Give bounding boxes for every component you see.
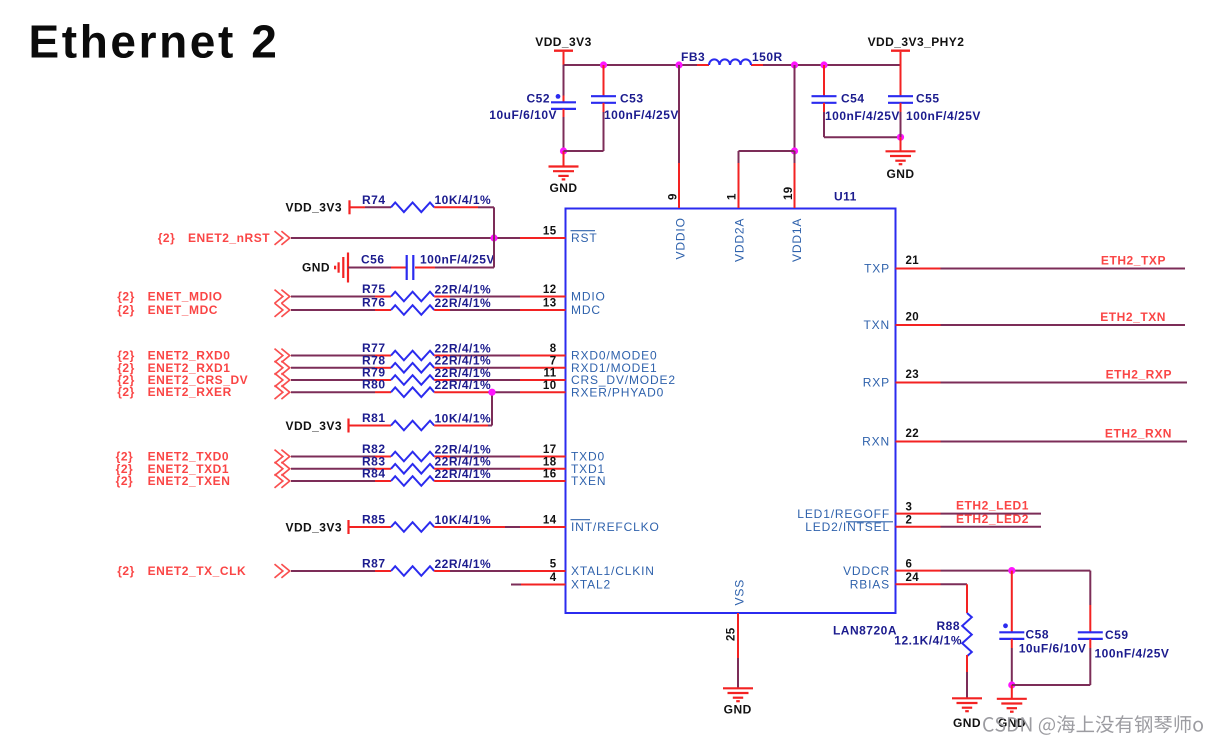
svg-text:22R/4/1%: 22R/4/1%	[435, 296, 492, 310]
wire R83 to pin 18	[434, 468, 520, 470]
wire net ETH2_TXN	[941, 310, 1186, 325]
svg-text:C55: C55	[916, 92, 940, 106]
svg-text:9: 9	[668, 193, 680, 200]
svg-text:GND: GND	[549, 181, 577, 195]
svg-text:7: 7	[550, 356, 557, 368]
svg-text:VSS: VSS	[733, 579, 747, 606]
power VDD_3V3 (R85 pull-up)	[285, 520, 348, 534]
port ENET2_TXD1	[116, 462, 290, 476]
wire RBIAS to R88	[941, 584, 968, 613]
resistor R87	[362, 557, 491, 576]
wire R87 to pin 5	[434, 570, 520, 572]
capacitor C55	[888, 92, 981, 138]
svg-text:LAN8720A: LAN8720A	[833, 624, 897, 638]
node junction C58 top	[1008, 567, 1015, 574]
wire R88 to GND	[966, 655, 968, 698]
svg-text:C52: C52	[526, 92, 550, 106]
svg-text:R80: R80	[362, 378, 386, 392]
node junction nRST net	[490, 234, 497, 241]
svg-text:RST: RST	[571, 231, 598, 245]
pin 8	[520, 343, 566, 355]
port ENET2_nRST	[158, 231, 290, 245]
pin 6	[896, 558, 941, 570]
power VDD_3V3 (R81 pull-up)	[285, 419, 348, 433]
svg-text:XTAL2: XTAL2	[571, 578, 611, 592]
ground GND (C56)	[302, 253, 348, 283]
svg-text:VDD_3V3: VDD_3V3	[285, 200, 342, 214]
svg-text:VDD2A: VDD2A	[733, 218, 747, 262]
capacitor C52	[489, 65, 576, 151]
resistor R84	[362, 467, 491, 486]
svg-text:25: 25	[726, 627, 738, 641]
wire R84 to pin 16	[434, 480, 520, 482]
svg-text:10K/4/1%: 10K/4/1%	[435, 193, 492, 207]
svg-text:LED1/REGOFF: LED1/REGOFF	[797, 507, 890, 521]
port ENET_MDC	[117, 303, 290, 317]
svg-text:ENET2_TXEN: ENET2_TXEN	[148, 474, 231, 488]
pin 23	[896, 369, 941, 382]
svg-text:10uF/6/10V: 10uF/6/10V	[489, 108, 557, 122]
svg-text:10uF/6/10V: 10uF/6/10V	[1019, 641, 1087, 655]
wire ENET2_TXD0 to R82	[291, 456, 391, 458]
ground GND (below VSS)	[723, 688, 753, 716]
resistor R74	[351, 193, 492, 212]
pin 12	[520, 284, 566, 296]
pin 7	[520, 356, 566, 368]
wire R76 to pin 13	[434, 309, 520, 311]
svg-text:R75: R75	[362, 282, 386, 296]
svg-text:24: 24	[906, 572, 920, 584]
svg-text:100nF/4/25V: 100nF/4/25V	[1095, 646, 1170, 660]
port ENET2_TX_CLK	[117, 564, 290, 578]
svg-text:13: 13	[543, 298, 557, 310]
wire ENET2_RXER to R80	[291, 391, 391, 393]
svg-text:ENET_MDC: ENET_MDC	[148, 303, 218, 317]
svg-text:{2}: {2}	[117, 564, 135, 578]
node junction C58 bottom	[1008, 681, 1015, 688]
svg-text:C59: C59	[1105, 628, 1129, 642]
resistor R82	[362, 442, 491, 461]
svg-text:14: 14	[543, 515, 557, 527]
node junction on rail at C53	[600, 61, 607, 68]
node junction on rail at pin9 branch	[675, 61, 682, 68]
pin 19 VDD1A	[783, 151, 804, 262]
svg-text:ETH2_RXP: ETH2_RXP	[1106, 368, 1172, 382]
pin 4	[511, 572, 566, 584]
resistor R80	[362, 378, 491, 397]
svg-text:U11: U11	[834, 190, 857, 204]
wire C54 bottom to C55 bottom	[824, 136, 901, 138]
svg-text:{2}: {2}	[116, 474, 134, 488]
resistor R75	[362, 282, 491, 301]
wire C56 to nRST net	[415, 238, 494, 268]
svg-text:22R/4/1%: 22R/4/1%	[435, 557, 492, 571]
svg-text:TXP: TXP	[864, 262, 890, 276]
svg-text:ETH2_TXP: ETH2_TXP	[1101, 254, 1166, 268]
svg-text:10K/4/1%: 10K/4/1%	[435, 513, 492, 527]
wire ENET2_nRST to pin 15	[291, 237, 520, 239]
pin 5	[520, 559, 566, 571]
svg-text:R76: R76	[362, 296, 386, 310]
svg-text:{2}: {2}	[158, 231, 176, 245]
node junction on rail at C54	[820, 61, 827, 68]
svg-text:16: 16	[543, 469, 557, 481]
svg-text:VDD_3V3: VDD_3V3	[285, 419, 342, 433]
svg-text:100nF/4/25V: 100nF/4/25V	[604, 108, 679, 122]
svg-text:12.1K/4/1%: 12.1K/4/1%	[894, 633, 962, 647]
svg-text:MDIO: MDIO	[571, 290, 606, 304]
svg-text:ETH2_LED1: ETH2_LED1	[956, 499, 1029, 513]
node junction C55 bottom	[897, 134, 904, 141]
wire R75 to pin 12	[434, 296, 520, 298]
ground GND (below C55)	[886, 137, 916, 181]
svg-text:3: 3	[906, 501, 913, 513]
svg-text:23: 23	[906, 369, 920, 381]
svg-text:22R/4/1%: 22R/4/1%	[435, 282, 492, 296]
wire ENET_MDIO to R75	[291, 296, 391, 298]
ground GND (below C58)	[997, 685, 1027, 730]
wire R82 to pin 17	[434, 456, 520, 458]
pin 10	[520, 380, 566, 392]
wire R78 to pin 7	[434, 367, 520, 369]
resistor R85	[350, 513, 492, 532]
port ENET2_RXD0	[117, 349, 290, 363]
power VDD_3V3 (R74 pull-up)	[285, 200, 349, 214]
svg-text:100nF/4/25V: 100nF/4/25V	[825, 109, 900, 123]
svg-text:R85: R85	[362, 513, 386, 527]
capacitor C58	[999, 571, 1086, 685]
svg-text:ETH2_RXN: ETH2_RXN	[1105, 427, 1172, 441]
U11 left pin names	[571, 231, 676, 592]
pin 3	[896, 501, 941, 513]
pin 24	[896, 572, 941, 584]
svg-text:ENET2_RXER: ENET2_RXER	[148, 385, 232, 399]
resistor R79	[362, 366, 491, 385]
pin 16	[520, 469, 566, 481]
wire ENET2_RXD1 to R78	[291, 367, 391, 369]
pin 11	[520, 368, 566, 380]
svg-text:C54: C54	[841, 92, 865, 106]
wire net ETH2_RXN	[941, 427, 1188, 442]
svg-text:GND: GND	[886, 167, 914, 181]
svg-text:RBIAS: RBIAS	[850, 578, 890, 592]
wire R81 to RXER net	[434, 392, 492, 425]
wire ENET2_TXD1 to R83	[291, 468, 391, 470]
ground GND (below R88)	[952, 698, 982, 730]
pin 21	[896, 255, 941, 268]
svg-text:ETH2_TXN: ETH2_TXN	[1100, 310, 1166, 324]
svg-text:C53: C53	[620, 92, 644, 106]
port ENET2_TXD0	[116, 450, 290, 464]
svg-text:VDD1A: VDD1A	[790, 218, 804, 262]
pin 14	[520, 515, 566, 527]
node junction on rail at pin19 branch	[791, 61, 798, 68]
pin 13	[520, 298, 566, 310]
wire R77 to pin 8	[434, 355, 520, 357]
svg-text:MDC: MDC	[571, 303, 601, 317]
svg-text:GND: GND	[724, 703, 752, 717]
svg-text:R81: R81	[362, 411, 386, 425]
capacitor C54	[812, 65, 900, 137]
power VDD_3V3_PHY2	[868, 35, 965, 96]
resistor R77	[362, 341, 491, 360]
resistor R83	[362, 454, 491, 473]
wire ENET2_CRS_DV to R79	[291, 379, 391, 381]
capacitor C56	[348, 253, 495, 281]
svg-text:10: 10	[543, 380, 557, 392]
wire C59 bottom to C58 bottom	[1012, 684, 1091, 686]
pin 25 VSS	[726, 579, 747, 688]
node junction RXER net	[488, 389, 495, 396]
svg-text:XTAL1/CLKIN: XTAL1/CLKIN	[571, 564, 655, 578]
svg-text:TXN: TXN	[863, 318, 890, 332]
svg-text:10K/4/1%: 10K/4/1%	[435, 411, 492, 425]
svg-text:100nF/4/25V: 100nF/4/25V	[420, 253, 495, 267]
svg-text:VDDIO: VDDIO	[674, 217, 688, 259]
wire R80 to pin 10	[434, 391, 520, 393]
svg-text:GND: GND	[302, 261, 330, 275]
svg-text:{2}: {2}	[117, 385, 135, 399]
wire VDDCR net	[941, 570, 1091, 572]
svg-text:19: 19	[783, 186, 795, 200]
svg-text:TXEN: TXEN	[571, 474, 606, 488]
op-amp U11 LAN8720A IC body	[566, 190, 898, 638]
pin 20	[896, 312, 941, 325]
svg-text:VDD_3V3_PHY2: VDD_3V3_PHY2	[868, 35, 965, 49]
svg-text:VDD_3V3: VDD_3V3	[535, 35, 592, 49]
svg-text:22R/4/1%: 22R/4/1%	[435, 467, 492, 481]
svg-text:22: 22	[906, 428, 920, 440]
pin 1 VDD2A	[727, 65, 799, 262]
svg-text:FB3: FB3	[681, 50, 705, 64]
svg-text:C58: C58	[1026, 628, 1050, 642]
svg-text:21: 21	[906, 255, 920, 267]
svg-text:ETH2_LED2: ETH2_LED2	[956, 512, 1029, 526]
port ENET2_TXEN	[116, 474, 290, 488]
wire net ETH2_RXP	[941, 368, 1188, 383]
svg-text:ENET2_TX_CLK: ENET2_TX_CLK	[148, 564, 247, 578]
svg-text:5: 5	[550, 559, 557, 571]
svg-text:1: 1	[727, 193, 739, 200]
watermark	[983, 715, 1203, 735]
node junction C52/C53 bottom	[560, 147, 567, 154]
svg-text:Ethernet 2: Ethernet 2	[29, 16, 280, 68]
wire ENET2_TXEN to R84	[291, 480, 391, 482]
wire main 3V3 rail	[564, 64, 901, 66]
wire ENET_MDC to R76	[291, 309, 391, 311]
resistor R78	[362, 353, 491, 372]
pin 17	[520, 444, 566, 456]
svg-text:ENET2_nRST: ENET2_nRST	[188, 231, 270, 245]
wire R85 to pin 14	[434, 526, 520, 528]
pin 2	[896, 515, 941, 527]
svg-text:18: 18	[543, 457, 557, 469]
svg-text:RXN: RXN	[862, 435, 890, 449]
svg-text:15: 15	[543, 226, 557, 238]
svg-text:8: 8	[550, 343, 557, 355]
power VDD_3V3 (top)	[535, 35, 592, 65]
wire R74 to nRST net	[434, 207, 494, 238]
port ENET2_RXD1	[117, 361, 290, 375]
svg-text:17: 17	[543, 444, 557, 456]
pin 22	[896, 428, 941, 441]
resistor R81	[350, 411, 492, 430]
wire net ETH2_TXP	[941, 254, 1186, 269]
svg-text:150R: 150R	[752, 50, 783, 64]
pin 15	[520, 226, 566, 238]
wire ENET2_TX_CLK to R87	[291, 570, 391, 572]
resistor R76	[362, 296, 491, 315]
wire R79 to pin 11	[434, 379, 520, 381]
wire net ETH2_LED1	[941, 499, 1042, 514]
svg-text:{2}: {2}	[117, 290, 135, 304]
port ENET2_RXER	[117, 385, 290, 399]
capacitor C53	[591, 65, 679, 151]
svg-text:ENET_MDIO: ENET_MDIO	[148, 290, 223, 304]
svg-text:RXP: RXP	[863, 376, 890, 390]
svg-text:22R/4/1%: 22R/4/1%	[435, 378, 492, 392]
capacitor C59	[1078, 571, 1170, 685]
svg-text:GND: GND	[953, 716, 981, 730]
svg-text:20: 20	[906, 312, 920, 324]
wire net ETH2_LED2	[941, 512, 1042, 527]
wire ENET2_RXD0 to R77	[291, 355, 391, 357]
port ENET_MDIO	[117, 290, 290, 304]
svg-text:6: 6	[906, 558, 913, 570]
port ENET2_CRS_DV	[117, 373, 290, 387]
svg-text:INT/REFCLKO: INT/REFCLKO	[571, 520, 660, 534]
svg-text:C56: C56	[361, 253, 385, 267]
ground GND (below C52)	[549, 151, 579, 195]
svg-text:R87: R87	[362, 557, 386, 571]
svg-text:VDDCR: VDDCR	[843, 564, 890, 578]
pin 18	[520, 457, 566, 469]
svg-text:4: 4	[550, 572, 557, 584]
wire C53 bottom to C52 bottom	[564, 150, 604, 152]
pin 9 VDDIO	[668, 65, 688, 260]
svg-text:12: 12	[543, 284, 557, 296]
svg-text:RXER/PHYAD0: RXER/PHYAD0	[571, 385, 664, 399]
U11 right pin names	[797, 262, 893, 592]
svg-text:11: 11	[544, 368, 557, 380]
svg-text:100nF/4/25V: 100nF/4/25V	[906, 109, 981, 123]
svg-text:2: 2	[906, 515, 913, 527]
svg-text:{2}: {2}	[117, 303, 135, 317]
svg-text:R74: R74	[362, 193, 386, 207]
svg-text:R88: R88	[936, 619, 960, 633]
svg-text:R84: R84	[362, 467, 386, 481]
svg-text:VDD_3V3: VDD_3V3	[285, 520, 342, 534]
resistor R88	[894, 613, 972, 656]
ferrite bead FB3	[681, 50, 783, 65]
